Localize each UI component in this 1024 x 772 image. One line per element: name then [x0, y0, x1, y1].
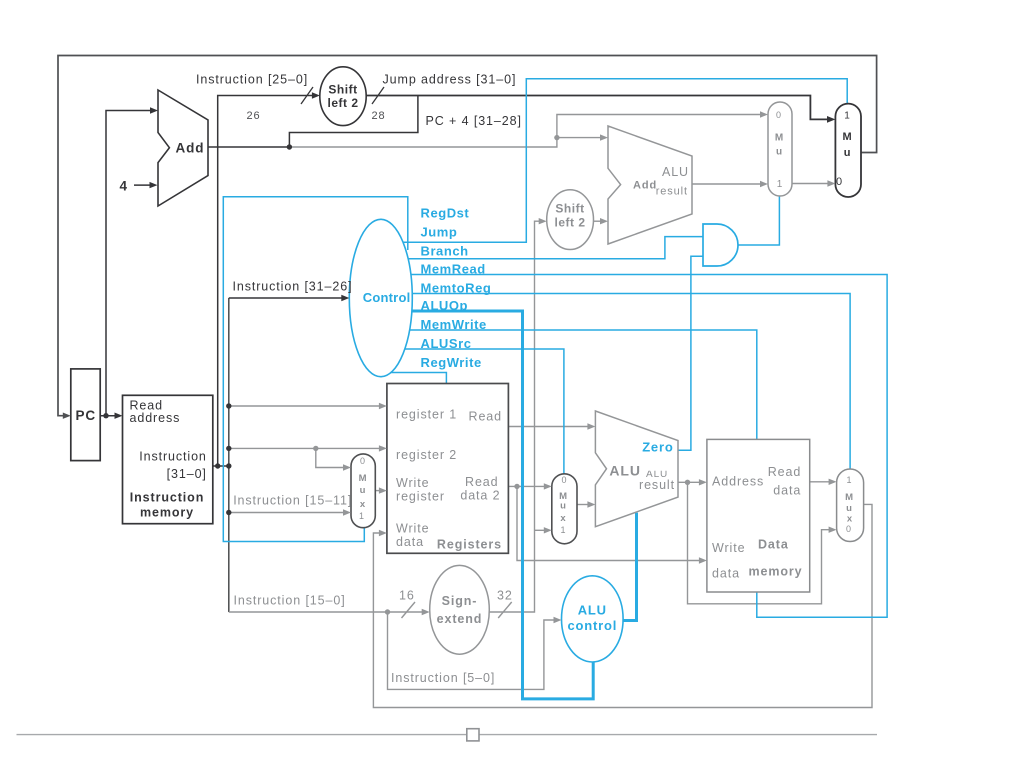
- svg-text:u: u: [360, 485, 367, 496]
- wire: sign extend output riser to ALUSrc mux input 1 and shift left 2: [489, 221, 540, 612]
- svg-text:Read: Read: [768, 465, 801, 479]
- wire: Instruction [20-16] to read register 2: [229, 447, 380, 449]
- arrowhead: PCSrc mux output into jump mux input 0: [827, 180, 835, 186]
- wire: instruction memory output to internal bus: [213, 465, 229, 467]
- ALU control ellipse: [562, 576, 624, 662]
- svg-text:control: control: [567, 618, 617, 633]
- arrowhead: into instruction memory read address: [115, 413, 123, 419]
- wire: MemtoReg mux output write-back around bottom to register write data: [373, 504, 872, 707]
- svg-text:Instruction: Instruction: [130, 491, 204, 505]
- wire: ALU result bypass around data memory to MemtoReg mux input 0: [688, 482, 830, 604]
- wire: PCSrc mux output to jump mux input 0: [792, 183, 828, 185]
- junction: bus tap instruction output: [226, 463, 231, 468]
- wire: PC value riser up to Add adder input: [106, 111, 152, 416]
- svg-text:26: 26: [247, 110, 261, 122]
- arrowhead: into shift left 2 jump: [312, 92, 320, 98]
- svg-text:u: u: [776, 147, 783, 158]
- svg-text:M: M: [359, 473, 368, 484]
- instruction memory: [123, 395, 213, 523]
- svg-text:Shift: Shift: [555, 202, 584, 216]
- svg-text:address: address: [130, 411, 181, 425]
- arrowhead: write back into write data: [379, 530, 387, 536]
- svg-text:result: result: [639, 478, 675, 492]
- junction: instruction bus to shift left 2: [215, 463, 220, 468]
- svg-text:0: 0: [776, 110, 782, 120]
- wire: ALU result to data memory address: [678, 481, 700, 483]
- wire: branch adder result to PCSrc mux input 1: [692, 183, 761, 185]
- bit width slash 26: [301, 87, 313, 104]
- svg-text:Instruction [5–0]: Instruction [5–0]: [391, 671, 495, 685]
- svg-text:Instruction [31–26]: Instruction [31–26]: [233, 280, 353, 294]
- svg-text:0: 0: [562, 475, 568, 485]
- shift left 2 (jump address): [320, 67, 366, 126]
- svg-text:0: 0: [846, 524, 852, 534]
- arrowhead: read data into MemtoReg mux input 1: [829, 479, 837, 485]
- arrowhead: into Add top input: [150, 107, 158, 113]
- junction: bus tap instruction 15-11: [226, 510, 231, 515]
- wire: instruction field vertical bus: [228, 298, 230, 612]
- svg-text:Registers: Registers: [437, 538, 502, 552]
- svg-text:Instruction: Instruction: [139, 449, 207, 463]
- junction: instruction 15-0 split to ALU control: [385, 609, 390, 614]
- wire: Zero output from ALU up to AND gate lower input: [678, 256, 703, 450]
- svg-text:M: M: [775, 133, 784, 144]
- svg-text:u: u: [844, 147, 852, 159]
- junction: register 2 field split to mux: [313, 446, 318, 451]
- wire: Instruction [25-21] to read register 1: [229, 405, 380, 407]
- bit width slash 32: [498, 602, 512, 618]
- svg-text:register 2: register 2: [396, 448, 457, 462]
- main ALU: [595, 411, 678, 527]
- wire: MemtoReg control to MemtoReg mux select: [381, 294, 850, 470]
- svg-text:RegWrite: RegWrite: [421, 355, 482, 370]
- svg-text:ALU: ALU: [662, 165, 689, 179]
- wire: Instruction [15-0] to sign extend: [229, 611, 423, 613]
- svg-text:Add: Add: [176, 141, 205, 156]
- write register mux: [351, 454, 375, 528]
- wire: PC+4 gray line to branch adder and PCSrc mux input 0: [289, 115, 761, 148]
- arrowhead: PC+4 into PCSrc mux input 0: [760, 111, 768, 117]
- arrowhead: read data 2 into ALUSrc mux input 0: [544, 483, 552, 489]
- arrowhead: ALUSrc mux output into ALU: [587, 501, 595, 507]
- svg-text:PC + 4 [31–28]: PC + 4 [31–28]: [426, 114, 522, 128]
- svg-text:1: 1: [359, 511, 365, 521]
- svg-text:1: 1: [561, 525, 567, 535]
- wire: ALUSrc mux output to ALU lower input: [577, 504, 588, 506]
- sign extend ellipse: [430, 565, 490, 654]
- svg-text:M: M: [845, 492, 854, 503]
- svg-text:u: u: [846, 503, 853, 514]
- svg-text:Write: Write: [396, 476, 429, 490]
- arrowhead: mux output into write register: [379, 487, 387, 493]
- wire: Instruction [31-26] into Control: [229, 297, 342, 299]
- svg-text:ALUSrc: ALUSrc: [421, 336, 472, 351]
- svg-text:data: data: [773, 484, 801, 498]
- jump mux (black, top right): [835, 104, 861, 197]
- arrowhead: read data 1 into ALU: [587, 423, 595, 429]
- svg-text:PC: PC: [76, 408, 97, 423]
- arrowhead: into PC: [63, 413, 71, 419]
- svg-text:left 2: left 2: [327, 96, 358, 110]
- svg-text:u: u: [560, 501, 567, 512]
- wire: jump address [31-0] line from shift left 2 to jump mux input 1: [320, 96, 828, 120]
- wire: MemRead control around right side to data memory bottom: [381, 275, 887, 618]
- svg-text:result: result: [656, 186, 688, 198]
- arrowhead: instruction 31-26 into Control: [341, 295, 349, 301]
- AND gate (branch and zero): [703, 224, 738, 266]
- svg-text:16: 16: [399, 589, 415, 603]
- svg-text:Control: Control: [363, 290, 411, 305]
- wire: data memory read data to MemtoReg mux input 1: [810, 481, 830, 483]
- bit width slash 16: [402, 602, 416, 618]
- wire: read data 2 to ALUSrc mux input 0: [508, 485, 545, 487]
- junction: PC+4 split: [287, 144, 292, 149]
- junction: read data 2 split to write data: [514, 484, 519, 489]
- arrowhead: into data memory write data: [699, 557, 707, 563]
- junction: bus tap read register 2: [226, 446, 231, 451]
- svg-text:Add: Add: [633, 180, 657, 192]
- arrowhead: jump address into jump mux input 1: [827, 116, 835, 123]
- svg-text:ALUOp: ALUOp: [421, 298, 469, 313]
- svg-text:Shift: Shift: [328, 83, 357, 97]
- svg-text:data: data: [712, 567, 740, 581]
- svg-text:MemWrite: MemWrite: [421, 317, 487, 332]
- svg-text:Instruction [25–0]: Instruction [25–0]: [196, 73, 308, 87]
- svg-text:x: x: [560, 513, 566, 524]
- wire: ALU control output thick line up to ALU select input: [623, 513, 636, 621]
- svg-text:0: 0: [360, 456, 366, 466]
- svg-text:Instruction [15–0]: Instruction [15–0]: [234, 594, 346, 608]
- wire: Instruction [5-0] down and around to ALU control: [388, 612, 556, 689]
- svg-text:Jump address [31–0]: Jump address [31–0]: [383, 73, 517, 87]
- svg-text:x: x: [847, 514, 853, 525]
- svg-text:Zero: Zero: [642, 440, 673, 455]
- separator handle: [467, 729, 479, 741]
- wire: MemWrite control to data memory top: [381, 330, 757, 439]
- svg-text:x: x: [360, 499, 366, 510]
- wire: RegWrite control to register file top: [381, 373, 446, 384]
- shift left 2 (branch offset): [547, 190, 594, 250]
- PCSrc mux (gray, top right): [768, 102, 792, 196]
- svg-text:Write: Write: [396, 522, 429, 536]
- arrowhead: ALU result into data memory address: [699, 479, 707, 485]
- svg-text:M: M: [842, 131, 852, 143]
- svg-text:4: 4: [120, 179, 128, 194]
- svg-text:RegDst: RegDst: [421, 206, 470, 221]
- arrowhead: constant 4 into Add: [150, 182, 158, 188]
- arrowhead: instruction 5-0 into ALU control: [554, 617, 562, 623]
- svg-text:data 2: data 2: [460, 489, 500, 503]
- junction: PC+4 gray split to branch adder: [554, 135, 559, 140]
- wire: constant 4 into Add adder: [134, 184, 151, 186]
- wire: shift left 2 output into branch adder lower input: [594, 220, 602, 222]
- arrowhead: sign extend into ALUSrc mux input 1: [544, 527, 552, 533]
- wire: Add output PC+4 black segment to junction: [208, 146, 289, 148]
- arrowhead: ALU bypass into MemtoReg mux input 0: [829, 527, 837, 533]
- svg-text:Sign-: Sign-: [442, 594, 478, 608]
- svg-text:28: 28: [372, 110, 386, 122]
- bit width slash 28: [372, 87, 384, 104]
- wire: write register mux output to Write register port: [375, 490, 380, 492]
- arrowhead: instruction 15-0 into sign extend: [422, 609, 430, 615]
- svg-text:ALU: ALU: [609, 463, 640, 479]
- svg-text:register 1: register 1: [396, 408, 457, 422]
- svg-text:[31–0]: [31–0]: [167, 467, 207, 481]
- svg-text:data: data: [396, 535, 424, 549]
- svg-text:0: 0: [836, 176, 843, 188]
- junction: bus tap read register 1: [226, 403, 231, 408]
- svg-text:1: 1: [777, 179, 783, 190]
- wire: PC feedback loop from jump mux output around top and left into PC: [58, 56, 877, 416]
- wire: PC+4 branch into branch adder top input: [557, 137, 601, 139]
- arrowhead: shift left 2 into branch adder: [600, 218, 608, 224]
- svg-text:ALU: ALU: [578, 603, 607, 618]
- svg-text:32: 32: [497, 589, 513, 603]
- wire: AND gate output to PCSrc mux select: [738, 196, 779, 245]
- svg-text:memory: memory: [749, 565, 803, 579]
- arrowhead: into write register mux input 1: [343, 509, 351, 515]
- separator rule: [17, 734, 878, 736]
- junction: ALU result split to bypass: [685, 480, 690, 485]
- arrowhead: branch adder result into PCSrc mux input 1: [760, 181, 768, 187]
- svg-text:Branch: Branch: [421, 244, 469, 259]
- wire: RegDst control from Control around left down to write register mux select: [223, 197, 407, 542]
- wire: ALUSrc control to ALUSrc mux select: [381, 349, 564, 474]
- svg-text:Jump: Jump: [421, 225, 458, 240]
- svg-text:left 2: left 2: [554, 216, 585, 230]
- junction: PC output split: [103, 413, 108, 418]
- svg-text:1: 1: [844, 111, 850, 122]
- arrowhead: into read register 1: [379, 403, 387, 409]
- svg-text:extend: extend: [437, 612, 483, 626]
- arrowhead: into write register mux input 0: [343, 464, 351, 470]
- control unit ellipse: [349, 219, 412, 376]
- svg-text:MemRead: MemRead: [421, 261, 486, 276]
- svg-text:1: 1: [847, 475, 853, 485]
- wire: Jump control to jump mux select: [381, 79, 847, 243]
- wire: ALUOp control thick line down to ALU control: [381, 311, 593, 699]
- data memory: [707, 439, 810, 592]
- wire: PC+4 [31-28] branch up and over to jump address merge point: [289, 96, 418, 148]
- svg-text:Address: Address: [712, 475, 764, 489]
- arrowhead: PC+4 into branch adder: [600, 134, 608, 140]
- svg-text:Instruction [15–11]: Instruction [15–11]: [233, 494, 352, 508]
- svg-text:Write: Write: [712, 541, 745, 555]
- wire: Branch control to AND gate upper input: [381, 237, 703, 259]
- wire: Instruction [20-16] branch down into write register mux input 0: [316, 448, 344, 467]
- svg-text:MemtoReg: MemtoReg: [421, 280, 492, 295]
- PC register: [71, 369, 100, 461]
- branch adder ALU Add result: [608, 126, 692, 244]
- adder Add (PC+4): [158, 90, 208, 206]
- svg-text:Data: Data: [758, 538, 789, 552]
- wire: read data 2 branch down to data memory write data: [517, 486, 700, 560]
- wire: read data 1 to ALU upper input: [508, 426, 588, 428]
- arrowhead: into shift left 2 branch: [539, 218, 547, 224]
- MemtoReg mux: [837, 469, 864, 542]
- svg-text:memory: memory: [140, 506, 194, 520]
- wire: sign extend branch to ALUSrc mux input 1: [535, 529, 546, 531]
- arrowhead: into read register 2: [379, 445, 387, 451]
- wire: PC output to instruction memory read address: [100, 415, 117, 417]
- svg-text:Read: Read: [469, 410, 502, 424]
- wire: Instruction [25-0] riser from instruction memory output up to shift left 2: [218, 96, 313, 467]
- svg-text:register: register: [396, 490, 445, 504]
- wire: Instruction [15-11] to write register mux input 1: [229, 512, 344, 514]
- ALUSrc mux: [552, 474, 577, 544]
- register file: [387, 384, 509, 554]
- svg-text:Read: Read: [465, 475, 498, 489]
